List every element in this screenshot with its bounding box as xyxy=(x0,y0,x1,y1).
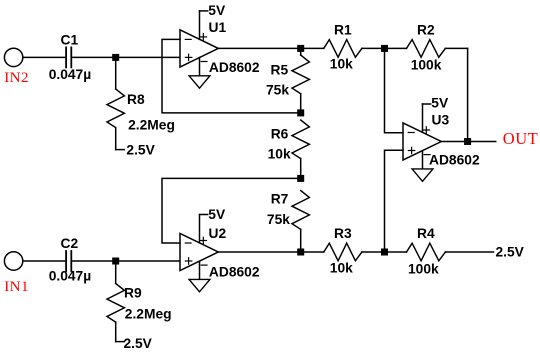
wire U2 inverting input feedback xyxy=(162,178,301,243)
svg-text:10k: 10k xyxy=(330,56,353,71)
node at C1/R8 junction xyxy=(112,54,119,61)
U2 5V supply pin xyxy=(200,215,208,243)
U1 ground xyxy=(189,58,210,89)
svg-text:AD8602: AD8602 xyxy=(209,265,260,280)
svg-text:0.047µ: 0.047µ xyxy=(49,269,92,284)
wire R4 to 2.5V xyxy=(445,251,493,253)
wire R2 to output node xyxy=(445,47,467,49)
resistor R7 xyxy=(292,191,309,230)
svg-text:U2: U2 xyxy=(209,226,227,241)
node U1 output / R5 top xyxy=(297,45,304,52)
capacitor C2 xyxy=(66,251,71,271)
resistor R6 xyxy=(292,120,309,159)
svg-text:C2: C2 xyxy=(61,236,79,251)
U2 ground xyxy=(189,261,210,292)
svg-text:2.5V: 2.5V xyxy=(496,244,525,259)
svg-text:OUT: OUT xyxy=(503,129,538,148)
resistor R4 xyxy=(407,243,446,261)
input terminal IN2 xyxy=(4,48,22,66)
svg-text:R5: R5 xyxy=(271,63,289,78)
node at C2/R9 junction xyxy=(112,258,119,265)
wire U3 output to OUT xyxy=(441,141,495,143)
svg-text:2.2Meg: 2.2Meg xyxy=(128,117,175,132)
svg-text:5V: 5V xyxy=(431,96,449,111)
svg-text:2.5V: 2.5V xyxy=(126,142,155,157)
svg-text:75k: 75k xyxy=(266,83,289,98)
svg-text:C1: C1 xyxy=(61,33,79,48)
wire R5 to R6 xyxy=(300,94,302,113)
svg-text:2.2Meg: 2.2Meg xyxy=(125,307,172,322)
svg-text:0.047µ: 0.047µ xyxy=(49,67,92,82)
svg-text:10k: 10k xyxy=(268,147,291,162)
resistor R2 xyxy=(407,40,446,58)
node R6/R7 feedback U2 xyxy=(297,175,304,182)
U3 ground xyxy=(412,151,433,182)
node R1/R2 to U3 inverting xyxy=(381,45,388,52)
svg-text:AD8602: AD8602 xyxy=(429,152,480,167)
wire R7 to bottom rail xyxy=(300,229,302,252)
op-amp U2 xyxy=(180,233,218,270)
wire junction to R8 xyxy=(115,57,117,89)
resistor R5 xyxy=(292,55,309,94)
U3 5V supply pin xyxy=(423,104,431,132)
wire R9 to 2.5V terminal xyxy=(115,322,117,342)
U1 5V supply pin xyxy=(200,11,208,39)
svg-text:R1: R1 xyxy=(334,23,352,38)
wire C1 to U1 noninverting input xyxy=(71,56,180,58)
wire top node to U3 inverting input xyxy=(385,48,404,132)
resistor R8 xyxy=(107,89,124,128)
svg-text:R6: R6 xyxy=(271,126,289,141)
svg-text:2.5V: 2.5V xyxy=(124,336,153,351)
svg-text:100k: 100k xyxy=(408,261,439,276)
wire U1 output to R1 xyxy=(218,47,323,49)
wire U2 output to R3 xyxy=(218,251,323,253)
wire U1 inverting input feedback xyxy=(162,39,301,113)
resistor R1 xyxy=(324,40,362,58)
wire rail to R5 xyxy=(300,48,302,55)
svg-text:R3: R3 xyxy=(334,226,352,241)
svg-text:U1: U1 xyxy=(209,20,227,35)
node R5/R6 feedback U1 xyxy=(297,109,304,116)
wire R6 to R7 xyxy=(300,159,302,179)
wire R1 to R2 xyxy=(362,47,407,49)
svg-text:10k: 10k xyxy=(330,261,353,276)
wire R3 to R4 xyxy=(362,251,407,253)
node U2 output / R7 bottom xyxy=(297,249,304,256)
resistor R3 xyxy=(324,243,362,261)
input terminal IN1 xyxy=(4,252,22,270)
svg-text:R8: R8 xyxy=(127,92,145,107)
wire junction to R9 xyxy=(115,261,117,284)
wire IN1 to C2 xyxy=(23,260,66,262)
op-amp U3 xyxy=(403,123,441,160)
node R3/R4 to U3 noninverting xyxy=(381,249,388,256)
svg-text:R9: R9 xyxy=(124,285,142,300)
wire bottom node to U3 noninverting input xyxy=(385,150,404,252)
node output xyxy=(464,138,471,145)
svg-text:IN1: IN1 xyxy=(4,279,29,295)
wire C2 to U2 noninverting input xyxy=(71,260,180,262)
svg-text:U3: U3 xyxy=(432,113,450,128)
wire R8 to 2.5V terminal xyxy=(115,128,117,150)
svg-text:100k: 100k xyxy=(411,57,442,72)
op-amp U1 xyxy=(180,30,218,67)
svg-text:5V: 5V xyxy=(208,3,226,18)
svg-text:R7: R7 xyxy=(271,191,289,206)
resistor R9 xyxy=(107,284,124,323)
svg-text:IN2: IN2 xyxy=(4,70,29,86)
capacitor C1 xyxy=(66,47,71,67)
svg-text:R2: R2 xyxy=(417,23,435,38)
svg-text:5V: 5V xyxy=(208,207,226,222)
svg-text:75k: 75k xyxy=(267,212,290,227)
svg-text:AD8602: AD8602 xyxy=(209,60,260,75)
wire IN2 to C1 xyxy=(23,56,66,58)
svg-text:R4: R4 xyxy=(417,226,435,241)
